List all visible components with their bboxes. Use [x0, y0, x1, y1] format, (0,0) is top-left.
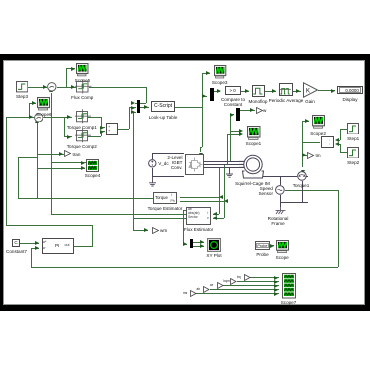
svg-text:K: K	[306, 89, 310, 95]
